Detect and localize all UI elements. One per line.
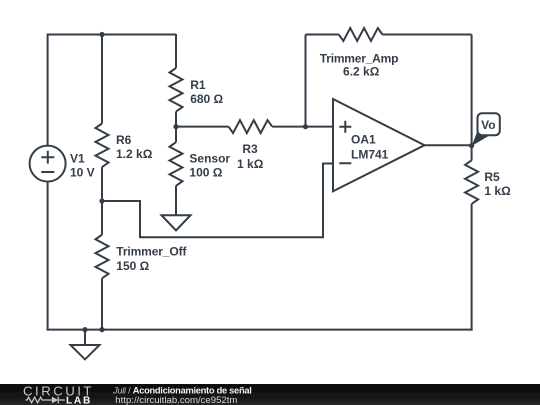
svg-text:R1: R1 — [190, 78, 206, 92]
svg-text:1 kΩ: 1 kΩ — [484, 184, 511, 198]
svg-text:R5: R5 — [484, 170, 500, 184]
svg-text:LM741: LM741 — [351, 147, 389, 161]
svg-text:6.2 kΩ: 6.2 kΩ — [343, 65, 380, 79]
svg-text:680 Ω: 680 Ω — [190, 92, 223, 106]
svg-text:Sensor: Sensor — [189, 151, 230, 165]
svg-text:http://circuitlab.com/ce952tm: http://circuitlab.com/ce952tm — [115, 395, 237, 405]
svg-text:OA1: OA1 — [351, 133, 376, 147]
svg-text:Trimmer_Amp: Trimmer_Amp — [320, 51, 399, 65]
svg-text:Vo: Vo — [481, 118, 495, 132]
svg-text:Trimmer_Off: Trimmer_Off — [116, 244, 187, 258]
svg-text:LAB: LAB — [66, 395, 92, 405]
svg-text:10 V: 10 V — [70, 166, 95, 180]
svg-text:V1: V1 — [70, 152, 85, 166]
svg-text:1 kΩ: 1 kΩ — [237, 157, 264, 171]
svg-text:R3: R3 — [242, 142, 258, 156]
svg-text:1.2 kΩ: 1.2 kΩ — [116, 147, 153, 161]
svg-text:100 Ω: 100 Ω — [189, 166, 222, 180]
svg-text:Juli / Acondicionamiento de se: Juli / Acondicionamiento de señal — [112, 385, 252, 395]
svg-text:R6: R6 — [116, 133, 132, 147]
svg-text:150 Ω: 150 Ω — [116, 259, 149, 273]
